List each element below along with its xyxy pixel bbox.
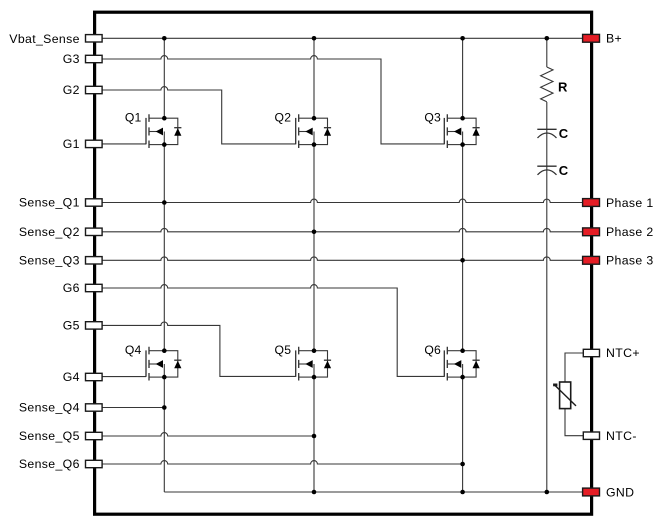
wire G2 to Q2 gate [102,87,296,144]
wire Q6 drain column [462,260,464,350]
svg-text:Q1: Q1 [125,111,142,125]
wire Q3 source to Phase3 [462,145,464,261]
pin Sense_Q4 [86,404,103,411]
wire thermistor to NTC- [565,409,583,436]
wire B+ to resistor [546,38,548,67]
wire Q4 drain column [163,203,165,351]
wire Q3 drain column [462,38,464,118]
thermistor RT [553,382,576,409]
svg-text:Vbat_Sense: Vbat_Sense [9,32,80,46]
capacitor C1 [537,129,556,138]
pin Sense_Q5 [86,432,103,439]
transistor Q5 [296,347,331,381]
wire G4 to Q4 gate [102,376,146,378]
wire Q2 source to Phase2 [313,145,315,232]
transistor Q4 [146,347,181,381]
svg-text:B+: B+ [606,32,622,46]
svg-text:Q3: Q3 [424,111,441,125]
svg-text:Sense_Q6: Sense_Q6 [19,457,80,471]
wire G1 to Q1 gate [102,143,146,145]
svg-text:R: R [558,80,568,95]
wire Sense_Q3 / Phase 3 [102,257,582,260]
wire Q5 source to GND [313,377,315,492]
pin B+ [583,34,600,42]
pin G6 [86,284,103,291]
svg-text:Phase 3: Phase 3 [606,254,654,268]
svg-text:Sense_Q3: Sense_Q3 [19,254,80,268]
svg-text:Q5: Q5 [275,343,292,357]
svg-text:G5: G5 [63,319,80,333]
pin Sense_Q2 [86,228,103,235]
svg-text:NTC-: NTC- [606,429,637,443]
wire snubber branch to GND [546,102,548,492]
svg-text:Q2: Q2 [275,111,292,125]
pin G4 [86,373,103,380]
pin G2 [86,86,103,93]
capacitor C2 [537,166,556,175]
svg-text:Sense_Q4: Sense_Q4 [19,401,80,415]
wire Vbat_Sense / B+ rail [102,37,582,39]
svg-text:Sense_Q1: Sense_Q1 [19,196,80,210]
wire Sense_Q6 [102,461,463,464]
svg-text:Q6: Q6 [424,343,441,357]
resistor R [541,67,553,102]
pin Phase 3 [583,256,600,264]
pin NTC- [583,432,599,439]
wire Q1 drain column [163,38,165,118]
wire Q4 source to GND [163,377,165,492]
pin Vbat_Sense [86,35,103,42]
svg-text:C: C [559,163,569,178]
pin Phase 1 [583,199,600,207]
transistor Q1 [146,114,181,148]
svg-text:G4: G4 [63,370,80,384]
wire Q6 source to GND [462,377,464,492]
pin G1 [86,140,103,147]
wire G3 to Q3 gate [102,56,444,144]
svg-text:Q4: Q4 [125,343,142,357]
svg-text:G6: G6 [63,281,80,295]
pin G5 [86,322,103,329]
wire Q5 drain column [313,232,315,351]
svg-text:G2: G2 [63,83,80,97]
wire Sense_Q2 / Phase 2 [102,228,582,231]
svg-text:Phase 2: Phase 2 [606,225,654,239]
pin GND [583,488,600,496]
wire Q1 source to Phase1 [163,145,165,203]
svg-text:C: C [559,126,569,141]
svg-text:GND: GND [606,485,634,499]
pin Sense_Q1 [86,199,103,206]
wire Sense_Q4 [102,407,164,409]
svg-text:Sense_Q2: Sense_Q2 [19,225,80,239]
wire GND rail [164,491,582,493]
wire Sense_Q5 [102,433,314,436]
pin NTC+ [583,349,599,356]
node sense junctions [162,405,167,410]
module outline [95,12,592,514]
node Phase junctions [162,200,167,205]
svg-text:NTC+: NTC+ [606,346,640,360]
wire NTC+ to thermistor [565,353,583,382]
wire Sense_Q1 / Phase 1 [102,199,582,202]
svg-text:G1: G1 [63,137,80,151]
pin G3 [86,55,103,62]
transistor Q6 [444,347,479,381]
pin Phase 2 [583,228,600,236]
transistor Q3 [444,114,479,148]
wire G6 to Q6 gate [102,285,444,377]
svg-text:Sense_Q5: Sense_Q5 [19,429,80,443]
wire Q2 drain column [313,38,315,118]
svg-text:Phase 1: Phase 1 [606,196,654,210]
pin Sense_Q6 [86,460,103,467]
node GND junctions [312,490,317,495]
transistor Q2 [296,114,331,148]
node B+ rail junctions [162,36,167,41]
svg-text:G3: G3 [63,52,80,66]
wire G5 to Q5 gate [102,322,296,376]
pin Sense_Q3 [86,257,103,264]
